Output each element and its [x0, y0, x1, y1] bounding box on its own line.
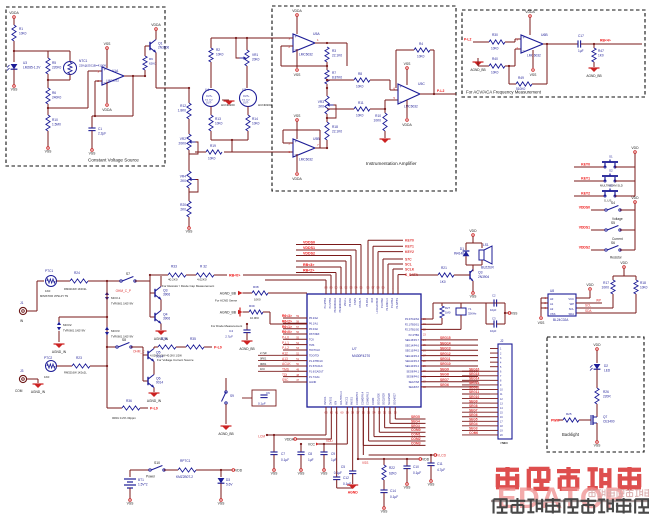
net label OHM_C_P	[116, 274, 152, 317]
svg-text:PWM: PWM	[551, 419, 559, 423]
svg-text:10K0: 10K0	[374, 119, 382, 123]
svg-text:10K0: 10K0	[491, 47, 499, 51]
wire J2 pin net SEG13	[462, 381, 490, 385]
svg-text:2N3904: 2N3904	[478, 275, 489, 279]
wire MCU left aux row	[258, 356, 283, 360]
power VDD	[613, 261, 636, 276]
svg-text:LMC6032: LMC6032	[299, 157, 313, 161]
svg-text:R6<3>: R6<3>	[282, 314, 292, 318]
MCU left pin ACLK	[282, 362, 323, 368]
net flag AGND_BB + resistor R39	[220, 304, 307, 324]
svg-text:SCL: SCL	[405, 262, 412, 266]
svg-text:VR2: VR2	[180, 137, 186, 141]
wire feedback to inverting input	[95, 81, 102, 116]
svg-text:R03: R03	[371, 297, 374, 302]
svg-text:U4: U4	[205, 88, 209, 92]
LED D2	[590, 364, 611, 388]
MCU bottom pin labels	[324, 391, 396, 405]
svg-text:VDDS2: VDDS2	[303, 251, 315, 255]
wire U5B output	[315, 147, 328, 149]
resistor R10	[46, 115, 61, 131]
svg-text:SEG8/P4.0: SEG8/P4.0	[406, 376, 419, 379]
wire J2 pin net COM0	[462, 431, 490, 435]
svg-text:R12: R12	[180, 104, 186, 108]
svg-text:R18: R18	[332, 125, 338, 129]
power VDDA below U5C	[402, 100, 412, 127]
power VSS above U5B	[294, 114, 302, 139]
push button S3	[602, 184, 635, 203]
svg-text:U1A: U1A	[112, 69, 119, 73]
svg-text:0.1µF: 0.1µF	[281, 458, 289, 462]
svg-text:R35: R35	[190, 337, 196, 341]
svg-text:VSS: VSS	[218, 502, 226, 506]
svg-text:U7: U7	[352, 347, 357, 351]
svg-text:DVCC1: DVCC1	[324, 396, 327, 405]
MCU bottom pin numbers	[325, 411, 398, 415]
power VSS below U6B	[530, 50, 538, 77]
ground arrow AGND_IN	[154, 331, 169, 341]
svg-text:0R01: 0R01	[260, 362, 267, 366]
resistor R20	[180, 201, 191, 217]
MCU left pin TMS	[282, 368, 324, 374]
svg-text:C10: C10	[413, 465, 419, 469]
svg-text:10K0: 10K0	[215, 122, 223, 126]
wire left fan to MCU top	[296, 268, 336, 294]
MCU right pin row	[405, 357, 478, 363]
svg-text:VDDS1: VDDS1	[303, 246, 315, 250]
resistor R18	[325, 122, 342, 148]
svg-text:10K0: 10K0	[356, 114, 364, 118]
svg-text:R6: R6	[52, 91, 56, 95]
svg-text:OHM_C_P: OHM_C_P	[116, 289, 131, 293]
svg-text:LS1: LS1	[483, 243, 489, 247]
svg-text:S2: S2	[609, 169, 613, 173]
svg-text:C5: C5	[341, 465, 345, 469]
svg-text:Q3: Q3	[478, 271, 483, 275]
svg-text:P1.1/MCLK: P1.1/MCLK	[386, 298, 389, 311]
svg-text:10pF: 10pF	[490, 308, 497, 312]
push button S1	[602, 155, 635, 169]
svg-text:C9: C9	[331, 452, 335, 456]
svg-text:KEY0: KEY0	[581, 163, 590, 167]
svg-text:AGND_BB: AGND_BB	[218, 432, 233, 436]
svg-text:TMS: TMS	[309, 344, 315, 347]
svg-text:SEG7/S8: SEG7/S8	[409, 381, 420, 384]
svg-text:BUZZER: BUZZER	[481, 266, 494, 270]
svg-text:R2: R2	[216, 48, 220, 52]
potentiometer VR2	[179, 134, 198, 154]
svg-text:10K0: 10K0	[491, 71, 499, 75]
resistor R49 feedback	[509, 43, 551, 91]
net label RB<4>	[600, 39, 611, 43]
svg-text:SEG10: SEG10	[440, 362, 451, 366]
watermark black CJK subtitle	[494, 498, 649, 514]
svg-text:SEG14: SEG14	[469, 377, 480, 381]
svg-text:1K0: 1K0	[45, 289, 51, 293]
svg-text:AVCC1: AVCC1	[345, 396, 348, 405]
resistor R7	[325, 70, 342, 96]
svg-text:S7: S7	[126, 272, 130, 276]
MCU right pin row	[406, 373, 478, 379]
svg-text:PTC2: PTC2	[44, 356, 52, 360]
resistor R3	[325, 47, 342, 70]
svg-text:10K0: 10K0	[602, 286, 610, 290]
dashed block border: Instrumentation Amplifier	[272, 6, 456, 191]
IC U8 BL24C02	[548, 289, 576, 322]
svg-text:SEG2/S29: SEG2/S29	[383, 393, 386, 405]
svg-text:COM0: COM0	[411, 428, 421, 432]
svg-text:D1: D1	[460, 247, 464, 251]
svg-text:VSS: VSS	[45, 150, 53, 154]
net label RB<0>	[229, 273, 240, 277]
wire	[211, 131, 248, 152]
wire MCU bottom fan right	[379, 407, 425, 432]
wire right fan to MCU top	[393, 267, 415, 294]
potentiometer VR4	[180, 171, 198, 192]
op-amp U5C	[393, 82, 425, 108]
svg-text:SEG4: SEG4	[411, 419, 420, 423]
wire J2 pin net SEG7	[462, 408, 490, 412]
wire J2 pin net SEG4	[462, 422, 490, 426]
svg-text:3906: 3906	[163, 293, 170, 297]
svg-text:D3: D3	[226, 478, 230, 482]
svg-text:LCDCAP/R33: LCDCAP/R33	[376, 297, 379, 313]
svg-text:VDDA: VDDA	[292, 9, 302, 13]
svg-text:220K0: 220K0	[52, 66, 61, 70]
svg-text:VR3: VR3	[318, 100, 324, 104]
net label PWM + resistor R25	[551, 412, 583, 423]
wire U5A- loop	[281, 46, 328, 67]
svg-text:RB<2>: RB<2>	[303, 268, 314, 272]
resistor R27 (XT)	[421, 303, 451, 324]
svg-text:For Voltage Current Source: For Voltage Current Source	[157, 358, 194, 362]
svg-text:SDA: SDA	[568, 312, 574, 316]
wire MCU bottom fan right	[374, 407, 426, 437]
svg-text:S10: S10	[154, 461, 160, 465]
svg-text:RM3216W 1K0±2L: RM3216W 1K0±2L	[64, 287, 87, 291]
svg-text:R17: R17	[603, 281, 609, 285]
ground VSS	[186, 217, 194, 234]
wire MCU bottom fan right	[385, 407, 426, 428]
svg-text:COM3: COM3	[411, 441, 421, 445]
resistor R11	[327, 100, 398, 118]
varistor MOV1	[105, 281, 133, 366]
svg-text:KEY2: KEY2	[405, 250, 414, 254]
ground arrow AGND_IN	[147, 393, 162, 403]
diode D3	[218, 469, 234, 506]
svg-text:SEG12: SEG12	[469, 386, 480, 390]
svg-text:2N3906: 2N3906	[158, 46, 169, 50]
svg-text:AGND: AGND	[309, 381, 316, 384]
svg-text:SEG10: SEG10	[469, 395, 480, 399]
svg-text:3906: 3906	[163, 317, 170, 321]
svg-text:VDD: VDD	[631, 146, 639, 150]
svg-text:AGND_BB: AGND_BB	[586, 74, 601, 78]
op-amp U5A	[288, 32, 320, 56]
svg-text:VSS: VSS	[538, 321, 546, 325]
MOSFET Q7	[583, 414, 615, 426]
block title For ACV/ACA Frequency Measurement	[466, 90, 542, 95]
wire	[188, 188, 190, 201]
svg-text:SEG5: SEG5	[411, 415, 420, 419]
resistor R21	[410, 266, 470, 284]
svg-text:1M0: 1M0	[445, 310, 451, 314]
svg-text:S9: S9	[230, 394, 234, 398]
svg-text:U3: U3	[23, 61, 27, 65]
PTC PTC2	[44, 356, 72, 379]
svg-text:SEG9: SEG9	[440, 367, 449, 371]
svg-text:P1.0/TA0: P1.0/TA0	[381, 297, 384, 308]
svg-text:TCK: TCK	[309, 339, 314, 342]
svg-text:C17: C17	[578, 34, 584, 38]
svg-text:2.2µF: 2.2µF	[98, 132, 106, 136]
svg-text:R13: R13	[215, 117, 221, 121]
svg-text:SEG11: SEG11	[469, 390, 479, 394]
MCU right pin row	[405, 347, 478, 353]
svg-text:SEG12/P4.4: SEG12/P4.4	[405, 355, 420, 358]
resistor R17	[576, 276, 615, 308]
svg-text:VSS: VSS	[511, 312, 517, 316]
transistor Q5	[143, 347, 163, 362]
svg-text:62K0: 62K0	[389, 472, 397, 476]
svg-text:VDDS0: VDDS0	[303, 240, 315, 244]
resistor R35	[186, 337, 212, 349]
svg-text:BL24C02A: BL24C02A	[553, 318, 569, 322]
svg-text:R27: R27	[445, 306, 451, 310]
wire Q3-Q4 chain	[160, 276, 162, 330]
svg-text:SEG13/P4.5: SEG13/P4.5	[405, 350, 420, 353]
svg-text:EDATOP: EDATOP	[497, 482, 625, 515]
svg-text:C3: C3	[492, 317, 496, 321]
net label P-L2	[437, 89, 456, 94]
thermistor NTC1	[64, 51, 108, 80]
wire right fan to MCU top	[388, 262, 412, 294]
svg-text:R9: R9	[149, 57, 153, 61]
svg-text:SEG16: SEG16	[469, 367, 480, 371]
svg-text:P5.1/S0: P5.1/S0	[349, 297, 352, 307]
svg-text:VDD: VDD	[422, 458, 430, 462]
dashed block border: Constant Voltage Source	[6, 7, 165, 166]
svg-text:AGND_BB: AGND_BB	[239, 347, 254, 351]
svg-text:COM: COM	[15, 389, 23, 393]
svg-text:COM1: COM1	[411, 433, 421, 437]
wire right fan to MCU top	[368, 239, 414, 294]
label For ACND Sense	[215, 299, 238, 303]
wire J2 pin net SEG9	[462, 399, 490, 403]
svg-text:COM3/P5.5: COM3/P5.5	[356, 391, 359, 405]
svg-text:VSS: VSS	[550, 312, 556, 316]
svg-text:R3: R3	[332, 49, 336, 53]
wire LCM rail	[258, 407, 326, 439]
svg-text:R11: R11	[358, 101, 364, 105]
power VDD	[466, 229, 482, 243]
MCU left pin R6<0>	[282, 330, 320, 336]
power VDDA below U5B	[292, 154, 302, 181]
wire MCU bottom fan right	[390, 407, 426, 423]
ground VSS	[538, 317, 546, 325]
svg-text:4.02K0 1/2W 40.2K0 1/2W: 4.02K0 1/2W 40.2K0 1/2W	[150, 353, 182, 357]
svg-text:R 32: R 32	[200, 265, 207, 269]
net label KEY2	[574, 192, 604, 197]
svg-text:J1: J1	[20, 301, 24, 305]
wire U5B- loop	[283, 130, 320, 148]
transistor Q6	[143, 355, 163, 388]
capacitor C13b + AGND	[334, 407, 358, 495]
svg-text:8.87K0: 8.87K0	[332, 76, 342, 80]
MCU top pin labels	[324, 297, 399, 313]
capacitor C7	[270, 435, 289, 476]
svg-text:LMC6032: LMC6032	[299, 52, 313, 56]
MCU left pin A13	[282, 357, 323, 363]
svg-text:SCL: SCL	[585, 304, 591, 308]
svg-text:R7: R7	[332, 71, 336, 75]
svg-text:M430F4270: M430F4270	[352, 354, 370, 358]
svg-text:R20: R20	[180, 203, 186, 207]
wire Q5-Q6	[153, 347, 155, 392]
resistor R24	[64, 271, 120, 291]
resistor R47	[592, 43, 604, 67]
svg-text:VDD: VDD	[469, 229, 477, 233]
power VSS below U5A	[294, 49, 302, 77]
svg-text:R19: R19	[210, 144, 216, 148]
switch S10 Power	[130, 461, 178, 479]
svg-text:R25: R25	[566, 412, 572, 416]
svg-text:P1.2/TA1: P1.2/TA1	[391, 297, 394, 308]
power VDD	[631, 146, 639, 196]
wire VDD rail lower	[358, 458, 430, 462]
MCU right pin row	[409, 334, 427, 337]
MCU left pin R6<1>	[282, 325, 319, 331]
svg-text:OUT+: OUT+	[243, 95, 250, 98]
svg-text:VLCD: VLCD	[437, 454, 447, 458]
svg-text:A0: A0	[550, 297, 554, 301]
svg-text:AVSS1: AVSS1	[351, 397, 354, 405]
MCU right pin row	[406, 367, 478, 373]
MCU left pin TDI	[282, 373, 320, 379]
capacitor C8	[297, 443, 313, 476]
switch S4	[605, 201, 635, 221]
MCU right pin row	[405, 341, 478, 347]
capacitor C6 loop	[242, 390, 276, 406]
svg-text:VDD: VDD	[586, 283, 594, 287]
LED U3 LM285-1.2V	[7, 61, 41, 82]
svg-text:SCLK: SCLK	[405, 267, 415, 271]
svg-text:0.1µF: 0.1µF	[390, 495, 398, 499]
wire left fan to MCU top	[296, 261, 346, 294]
svg-text:1µF: 1µF	[578, 49, 584, 53]
svg-text:PTC1: PTC1	[45, 269, 53, 273]
svg-text:R21: R21	[441, 266, 447, 270]
svg-text:VSS: VSS	[186, 230, 194, 234]
MCU left pin P-L2	[282, 346, 320, 352]
svg-text:SEG4/S27: SEG4/S27	[393, 393, 396, 405]
power VDDA	[151, 23, 161, 40]
svg-text:Q7: Q7	[603, 415, 607, 419]
resistor R32	[196, 265, 227, 282]
svg-text:C8: C8	[308, 452, 312, 456]
svg-text:C12: C12	[343, 476, 349, 480]
svg-text:SEG14: SEG14	[440, 341, 451, 345]
svg-text:R5: R5	[52, 61, 56, 65]
svg-text:SEG10/P4.2: SEG10/P4.2	[405, 365, 420, 368]
svg-text:RB<0>: RB<0>	[229, 273, 240, 277]
svg-text:LMC6032: LMC6032	[527, 53, 541, 57]
svg-text:C11: C11	[437, 462, 443, 466]
wire U8 address pins	[541, 296, 548, 316]
ground arrow	[222, 100, 235, 105]
svg-text:AGND_IN: AGND_IN	[147, 399, 162, 403]
MCU right pin row	[405, 362, 478, 368]
wire right fan to MCU top	[383, 257, 412, 294]
ground arrow AGND_BB	[218, 426, 233, 436]
net flag AGND_BB + resistor R38	[220, 285, 307, 302]
svg-text:TVR0601 1KEY8V: TVR0601 1KEY8V	[63, 328, 85, 332]
svg-text:10K0: 10K0	[417, 55, 425, 59]
svg-text:NTC1: NTC1	[79, 59, 88, 63]
label For Voltage Current Source	[157, 358, 194, 362]
diode D1	[454, 243, 470, 265]
svg-text:VSS: VSS	[470, 295, 478, 299]
resistor R8	[326, 72, 398, 90]
svg-text:KEY0: KEY0	[405, 239, 414, 243]
resistor R4 feedback	[396, 42, 444, 95]
svg-text:LMC6032: LMC6032	[106, 79, 119, 83]
watermark red CJK title	[496, 467, 641, 490]
ground VSS	[89, 146, 97, 156]
svg-text:J2: J2	[500, 339, 504, 343]
wire J2 pin net SEG16	[462, 367, 490, 371]
varistor MOV2	[57, 316, 108, 342]
svg-text:VSS: VSS	[362, 461, 368, 465]
ground VSS	[45, 131, 53, 154]
svg-text:10K0: 10K0	[254, 298, 261, 302]
wire left fan to MCU top	[296, 246, 356, 294]
power VDDA above U6B	[525, 10, 535, 35]
svg-text:VR4: VR4	[180, 175, 186, 179]
svg-text:XIN: XIN	[335, 401, 338, 405]
svg-text:P1.5/TB2: P1.5/TB2	[329, 297, 332, 308]
svg-text:P1.7/CA1: P1.7/CA1	[309, 376, 320, 379]
svg-text:240K0: 240K0	[52, 96, 61, 100]
resistor R2	[209, 38, 224, 88]
svg-text:COM0: COM0	[469, 431, 478, 435]
svg-text:MOV3: MOV3	[111, 329, 120, 333]
svg-text:VSS: VSS	[404, 62, 412, 66]
wire	[47, 74, 70, 88]
svg-text:U5A: U5A	[313, 32, 320, 36]
svg-text:VDDA: VDDA	[525, 10, 535, 14]
svg-text:SEG5: SEG5	[469, 418, 478, 422]
wire input to U5A+	[272, 37, 293, 39]
wire U5A output	[315, 42, 347, 66]
svg-text:1.5V*2: 1.5V*2	[138, 483, 148, 487]
wire J2 pin net SEG5	[462, 418, 490, 422]
wire	[47, 71, 102, 115]
svg-text:0R01 0.2% 33ppm: 0R01 0.2% 33ppm	[112, 416, 137, 420]
transistor Q1	[150, 40, 169, 53]
capacitor C1	[88, 116, 106, 146]
svg-text:SEG3/S28: SEG3/S28	[388, 393, 391, 405]
capacitor C4	[225, 323, 250, 340]
wire	[188, 150, 190, 171]
connector J2	[490, 339, 512, 445]
svg-text:VDDS1: VDDS1	[579, 226, 590, 230]
svg-text:S7C: S7C	[405, 257, 412, 261]
power VDD	[631, 196, 639, 250]
svg-text:KEY2: KEY2	[581, 192, 590, 196]
capacitor C12	[333, 407, 352, 488]
svg-text:R6<2>: R6<2>	[282, 320, 292, 324]
